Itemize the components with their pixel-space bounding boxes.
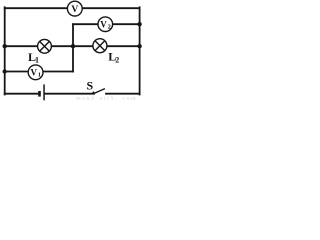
- node left-V1-row junction: [2, 69, 6, 73]
- svg-text:V: V: [100, 20, 107, 30]
- lamp L1: [38, 39, 52, 53]
- switch S (blade): [94, 89, 105, 94]
- svg-text:1: 1: [35, 56, 39, 65]
- svg-text:m a n d e i t 5 . c o m: m a n d e i t 5 . c o m: [76, 96, 136, 101]
- node left-lamp-row junction: [2, 44, 6, 48]
- wire bottom: battery left lead: [5, 93, 39, 95]
- battery BT1 (long positive plate): [43, 84, 45, 100]
- node right-lamp-row junction: [137, 44, 141, 48]
- wire bottom: switch contact to right corner: [106, 93, 140, 95]
- wire bottom: battery to switch pivot: [45, 93, 94, 95]
- battery BT1 (short negative plate): [38, 91, 41, 97]
- voltmeter V2: [98, 17, 113, 32]
- voltmeter V (U1): [67, 1, 82, 16]
- wire left vertical: [4, 7, 6, 94]
- wire V2 branch horizontal: [73, 23, 140, 25]
- svg-text:S: S: [87, 78, 94, 92]
- lamp L2: [93, 39, 107, 53]
- svg-text:2: 2: [108, 23, 111, 30]
- wire lamp row: [5, 45, 140, 47]
- svg-text:V: V: [31, 68, 38, 78]
- voltmeter V1: [28, 65, 43, 80]
- wire V1 row: [5, 71, 73, 73]
- switch S (pivot tick): [92, 92, 95, 94]
- svg-text:2: 2: [115, 55, 119, 64]
- node right-V2-row junction: [137, 22, 141, 26]
- label L2: [108, 49, 119, 64]
- svg-text:V: V: [71, 5, 78, 15]
- svg-text:1: 1: [38, 72, 41, 79]
- wire top (node A to node B through voltmeter V): [5, 7, 140, 9]
- label L1: [28, 50, 39, 65]
- wire middle vertical (V2 corner to V1 corner): [72, 24, 74, 71]
- wire right vertical: [139, 7, 141, 94]
- node middle 4-way junction: [71, 44, 75, 48]
